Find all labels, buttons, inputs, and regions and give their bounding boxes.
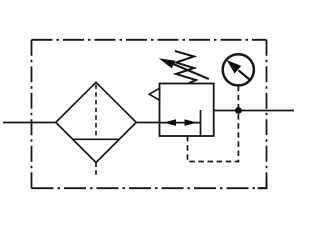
regulator R1: adjustment spring (175, 51, 196, 84)
wire: filter to regulator (136, 122, 159, 124)
node: junction dot on outlet line (235, 107, 242, 114)
filter F1: bowl separator chord (73, 138, 119, 140)
enclosure border: bottom-right corner tick (258, 179, 267, 188)
regulator R1: internal outlet passage line (200, 110, 202, 136)
regulator R1: flow path double arrow (160, 122, 200, 124)
filter F1: dashed element line (95, 85, 97, 140)
enclosure dash-dot border: left side (31, 40, 33, 188)
gauge G1: sensing line (dashed) (237, 86, 239, 108)
gauge G1: needle (239, 70, 251, 80)
gauge G1: body circle (223, 54, 254, 85)
wire: outlet line (port 2) (214, 110, 294, 112)
enclosure dash-dot border: right side (266, 40, 268, 188)
enclosure dash-dot border: bottom side (32, 187, 267, 189)
wire: inlet line (port 1) (3, 122, 56, 124)
regulator R1: adjustability arrow (170, 63, 209, 79)
enclosure dash-dot border: top side (32, 39, 267, 41)
regulator R1: pilot feedback line (dashed) (188, 114, 239, 162)
regulator R1: body box (160, 84, 214, 137)
regulator R1: relief vent triangle (149, 88, 159, 100)
filter F1: diamond body (56, 82, 136, 162)
filter F1: drain line (dashed) (95, 163, 97, 177)
